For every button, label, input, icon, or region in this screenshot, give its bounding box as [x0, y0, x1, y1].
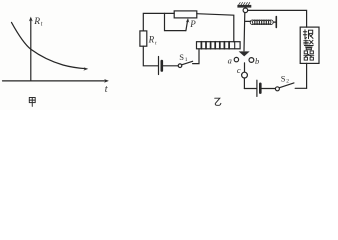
wire: stub between contacts down to c [244, 63, 246, 72]
wire: bottom right corner to switch S2 [295, 87, 306, 89]
switch S2 lever [279, 83, 294, 88]
svg-text:P: P [189, 19, 196, 29]
wire: battery B1 to switch S1 [163, 65, 178, 67]
electromagnet coil L1 body [197, 42, 241, 49]
alarm box text 器 [304, 51, 314, 60]
svg-text:t: t [41, 21, 43, 27]
svg-text:R: R [33, 17, 40, 27]
rheostat P body [174, 11, 197, 18]
switch S1 lever [182, 61, 193, 65]
graph 甲: caption 甲 [29, 98, 35, 107]
battery B1 short plate [161, 61, 164, 71]
alarm box text 报 [303, 30, 313, 39]
wire: rheostat right to coil (down at x=235) [197, 14, 234, 42]
contact b circle [249, 58, 254, 63]
spring coil [250, 20, 273, 25]
svg-text:b: b [255, 56, 259, 66]
alarm box text 警 [304, 40, 313, 50]
wire: switch S2 to battery B2 [261, 88, 275, 90]
graph 甲: x-axis arrowhead [104, 79, 109, 83]
armature support hatched block [237, 5, 251, 8]
armature pivot circle [243, 8, 248, 13]
wire: top-left of control loop [143, 13, 174, 31]
graph 甲: curve end arrowhead [83, 67, 88, 70]
switch S2 pivot circle [275, 87, 279, 91]
wire: pivot to alarm box (top wire of alarm loop) [248, 10, 307, 27]
wire: alarm box bottom down [306, 63, 308, 88]
rheostat wiper arrow [186, 20, 188, 30]
wire: switch S1 fixed contact up to coil [193, 49, 199, 64]
armature lever (vertical) [243, 13, 246, 51]
svg-text:2: 2 [286, 79, 289, 85]
svg-text:R: R [148, 35, 155, 45]
wire: shorting link from top wire to wiper [165, 13, 186, 30]
svg-text:t: t [105, 84, 108, 95]
graph 甲: x-axis [3, 80, 108, 82]
battery B2 long plate [256, 80, 258, 96]
wire: resistor bottom to battery [143, 46, 158, 66]
graph 甲: curve Rt vs t [12, 22, 86, 68]
resistor Rt body [140, 31, 147, 46]
wire: battery B2 to contact c wire [244, 88, 256, 90]
wire: c down to bottom wire of alarm loop [243, 78, 245, 89]
graph 甲: y-axis arrowhead [29, 17, 33, 22]
svg-text:S: S [281, 74, 286, 84]
svg-text:S: S [179, 52, 184, 62]
alarm box body [300, 27, 319, 63]
contact c circle [242, 72, 248, 78]
svg-text:a: a [228, 55, 232, 65]
battery B1 long plate [158, 57, 160, 75]
svg-text:1: 1 [185, 57, 188, 63]
battery B2 short plate [259, 84, 262, 93]
armature moving contact (triangle) [239, 51, 250, 56]
graph 甲: y-axis [30, 19, 32, 81]
svg-text:c: c [237, 65, 241, 75]
spring link to anchor [274, 21, 276, 23]
caption 乙 [215, 98, 221, 105]
contact a circle [234, 57, 238, 61]
electromagnet coil L1 winding dividers [201, 42, 234, 49]
spring anchor bar [275, 17, 277, 28]
spring link from armature [246, 20, 251, 22]
svg-text:t: t [155, 40, 157, 46]
switch S1 pivot circle [178, 64, 182, 68]
